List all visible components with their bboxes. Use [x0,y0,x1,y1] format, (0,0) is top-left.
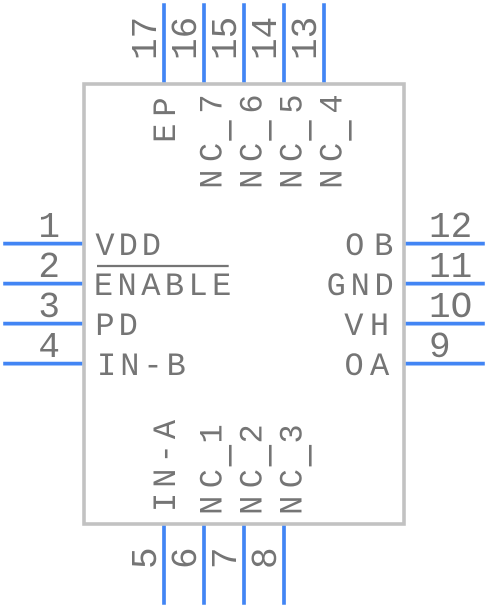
svg-text:1O: 1O [429,287,472,328]
svg-text:7: 7 [206,547,247,569]
svg-text:VH: VH [344,308,395,345]
svg-text:14: 14 [246,17,287,60]
svg-text:EP: EP [148,90,185,142]
svg-text:NC: NC [274,461,311,514]
svg-text:3: 3 [38,287,60,328]
svg-text:15: 15 [206,17,247,60]
svg-text:NC: NC [234,461,271,514]
svg-text:4: 4 [38,327,60,368]
svg-text:1: 1 [194,420,231,443]
svg-text:8: 8 [246,547,287,569]
svg-text:NC: NC [234,135,271,188]
svg-text:16: 16 [166,17,207,60]
svg-text:2: 2 [234,420,271,443]
svg-text:11: 11 [429,247,472,288]
svg-text:1: 1 [38,207,60,248]
svg-text:NC: NC [314,135,351,188]
svg-text:OB: OB [345,228,403,265]
svg-text:9: 9 [429,327,451,368]
svg-text:6: 6 [234,90,271,113]
svg-text:4: 4 [314,90,351,113]
svg-text:ENABLE: ENABLE [94,268,236,305]
svg-text:VDD: VDD [95,228,165,265]
svg-text:IN-B: IN-B [97,348,190,385]
svg-text:NC: NC [194,461,231,514]
svg-text:6: 6 [166,547,207,569]
svg-text:17: 17 [126,17,167,60]
svg-text:7: 7 [194,90,231,113]
svg-text:NC: NC [194,135,231,188]
svg-text:3: 3 [274,420,311,443]
svg-text:PD: PD [95,308,141,345]
svg-text:GND: GND [327,268,399,305]
svg-text:5: 5 [126,547,167,569]
svg-text:NC: NC [274,135,311,188]
svg-text:13: 13 [286,17,327,60]
svg-text:IN-A: IN-A [148,415,185,512]
svg-text:2: 2 [38,247,60,288]
svg-text:5: 5 [274,90,311,113]
svg-text:OA: OA [344,348,395,385]
svg-text:12: 12 [429,207,472,248]
